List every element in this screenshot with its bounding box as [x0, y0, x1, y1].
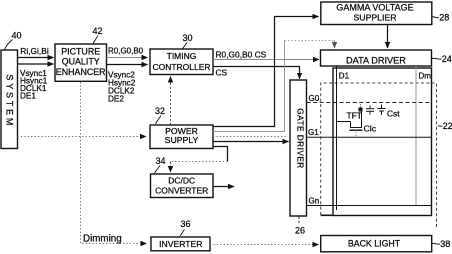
capacitor Clc [364, 106, 377, 134]
svg-text:BACK LIGHT: BACK LIGHT [348, 238, 401, 248]
transistor TFT [337, 111, 363, 138]
svg-text:GAMMA VOLTAGE: GAMMA VOLTAGE [336, 3, 413, 13]
wire PS to DATA DRIVER top (gray) [213, 41, 335, 132]
label 34 [155, 156, 166, 173]
label 40 [5, 31, 22, 50]
wire PS to GATE DRIVER (dotted) [213, 136, 288, 138]
block TIMING CONTROLLER (30) [150, 49, 213, 75]
svg-text:D1: D1 [339, 72, 350, 81]
svg-text:32: 32 [155, 106, 165, 116]
svg-text:Clc: Clc [364, 124, 377, 134]
svg-text:G1: G1 [308, 128, 319, 137]
block BACK LIGHT (38) [321, 236, 432, 252]
pixel node dot [359, 103, 363, 112]
svg-text:ENHANCER: ENHANCER [56, 67, 106, 77]
svg-text:TFT: TFT [347, 111, 362, 121]
block GAMMA VOLTAGE SUPPLIER (28) [321, 2, 432, 25]
svg-text:DE2: DE2 [108, 94, 124, 103]
wire CS TC to GATE DRIVER [213, 67, 300, 79]
label ~22 [438, 121, 452, 131]
svg-text:30: 30 [183, 33, 193, 43]
wire sync1 SYSTEM to PQE [18, 64, 54, 101]
data line Dm [416, 66, 431, 206]
label 42 [93, 26, 103, 44]
panel dashed outline (22) [321, 83, 437, 229]
svg-text:Dm: Dm [419, 71, 432, 80]
block LCD panel [321, 68, 432, 216]
svg-text:QUALITY: QUALITY [62, 57, 100, 67]
wire R0,G0,B0 PQE to TC [107, 47, 148, 58]
gate line G1 [307, 128, 432, 137]
block DATA DRIVER (24) [321, 50, 432, 66]
wire sync2 PQE to TC [107, 65, 148, 104]
wire dimming PQE to INVERTER [81, 82, 147, 245]
svg-text:Ri,Gi,Bi: Ri,Gi,Bi [20, 46, 49, 56]
svg-text:DATA DRIVER: DATA DRIVER [346, 55, 406, 65]
svg-text:CS: CS [216, 68, 228, 78]
block DC/DC CONVERTER (34) [151, 174, 214, 198]
wire GAMMA to DATA DRIVER [387, 25, 389, 49]
svg-text:Dimming: Dimming [83, 234, 122, 245]
svg-text:G0: G0 [309, 94, 320, 103]
svg-text:GATE DRIVER: GATE DRIVER [296, 108, 305, 168]
block GATE DRIVER (26) [290, 80, 307, 216]
gate line Gn [307, 197, 432, 206]
wire R0,G0,B0 CS TC to DATA DRIVER [213, 50, 319, 60]
svg-text:PICTURE: PICTURE [61, 47, 100, 57]
svg-text:DC/DC: DC/DC [168, 176, 195, 186]
label ~38 [432, 239, 450, 249]
data line D1 [337, 66, 350, 210]
label ~24 [432, 54, 452, 64]
svg-text:SUPPLIER: SUPPLIER [354, 13, 397, 23]
svg-text:INVERTER: INVERTER [159, 239, 202, 249]
wire PS to GAMMA VOLTAGE SUPPLIER [213, 17, 319, 127]
wire POWER SUPPLY to TIMING CONTROLLER [170, 77, 172, 126]
capacitor Cst [378, 105, 401, 119]
svg-text:42: 42 [93, 26, 103, 36]
svg-text:CONTROLLER: CONTROLLER [152, 62, 210, 72]
block PICTURE QUALITY ENHANCER (42) [55, 44, 107, 81]
label 30 [182, 33, 193, 50]
svg-text:26: 26 [295, 226, 305, 236]
label 26 [295, 217, 305, 236]
wire DC/DC output arrow [213, 186, 234, 188]
wire PS to GATE DRIVER [213, 141, 289, 143]
svg-text:34: 34 [156, 156, 166, 166]
label 32 [155, 106, 165, 124]
svg-text:40: 40 [12, 31, 22, 41]
svg-text:Cst: Cst [387, 109, 400, 119]
svg-text:~38: ~38 [435, 239, 450, 249]
svg-text:R0,G0,B0: R0,G0,B0 [108, 47, 144, 56]
svg-text:CONVERTER: CONVERTER [155, 185, 208, 195]
block SYSTEM [1, 50, 18, 149]
wire INVERTER to BACK LIGHT (dashed) [210, 244, 319, 246]
block INVERTER (36) [151, 237, 210, 251]
svg-text:DE1: DE1 [20, 92, 36, 101]
gate line G0 (dashed) [307, 94, 432, 103]
svg-text:Gn: Gn [309, 197, 320, 206]
svg-text:36: 36 [181, 219, 191, 229]
wire SYSTEM to POWER SUPPLY (dotted) [18, 136, 147, 138]
svg-text:~22: ~22 [438, 121, 452, 131]
label 36 [180, 219, 191, 236]
svg-text:SYSTEM: SYSTEM [5, 74, 15, 128]
svg-text:~24: ~24 [437, 54, 452, 64]
svg-text:R0,G0,B0 CS: R0,G0,B0 CS [216, 50, 267, 60]
svg-text:SUPPLY: SUPPLY [165, 135, 199, 145]
svg-text:~28: ~28 [434, 13, 449, 23]
block POWER SUPPLY (32) [150, 125, 213, 149]
svg-text:TIMING: TIMING [167, 51, 197, 61]
wire PS to DC/DC CONVERTER [171, 147, 228, 173]
label ~28 [432, 13, 449, 23]
wire Ri,Gi,Bi SYSTEM to PQE [18, 46, 54, 58]
